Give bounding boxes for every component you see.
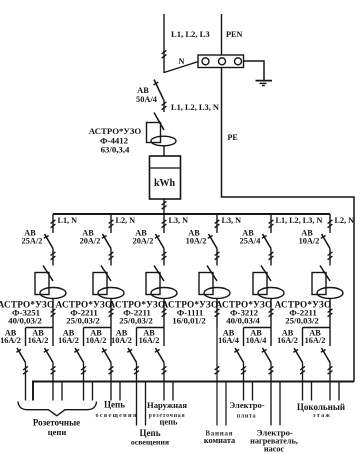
- svg-text:L2, N: L2, N: [116, 216, 136, 225]
- svg-text:L1, N: L1, N: [58, 216, 78, 225]
- svg-text:10А/2: 10А/2: [299, 237, 320, 246]
- svg-text:25/0,03/2: 25/0,03/2: [66, 316, 100, 326]
- svg-text:50А/4: 50А/4: [136, 95, 158, 104]
- svg-text:16А/2: 16А/2: [58, 336, 79, 345]
- svg-text:10А/2: 10А/2: [111, 336, 132, 345]
- svg-text:10А/4: 10А/4: [246, 336, 267, 345]
- svg-text:16А/2: 16А/2: [28, 336, 49, 345]
- svg-text:16А/2: 16А/2: [0, 336, 21, 345]
- svg-text:насос: насос: [264, 445, 285, 454]
- svg-text:kWh: kWh: [154, 178, 176, 189]
- svg-text:16А/4: 16А/4: [218, 336, 239, 345]
- svg-text:16А/2: 16А/2: [139, 336, 160, 345]
- svg-text:63/0,3,4: 63/0,3,4: [101, 145, 130, 155]
- svg-text:L3, N: L3, N: [169, 216, 189, 225]
- svg-text:20А/2: 20А/2: [133, 237, 154, 246]
- svg-text:L1, L2, L3: L1, L2, L3: [171, 29, 210, 39]
- svg-text:комната: комната: [204, 436, 236, 445]
- svg-text:40/0,03/4: 40/0,03/4: [226, 316, 260, 326]
- svg-text:освещения: освещения: [95, 412, 137, 419]
- svg-text:10А/2: 10А/2: [186, 237, 207, 246]
- svg-text:плита: плита: [237, 413, 257, 420]
- svg-text:20А/2: 20А/2: [80, 237, 101, 246]
- svg-text:16А/2: 16А/2: [277, 336, 298, 345]
- svg-text:PEN: PEN: [226, 30, 242, 39]
- svg-text:PE: PE: [228, 133, 238, 142]
- svg-text:Цепь: Цепь: [104, 400, 125, 410]
- svg-text:Электро-: Электро-: [229, 400, 264, 410]
- svg-text:АВ: АВ: [137, 86, 149, 95]
- svg-text:Розеточные: Розеточные: [33, 418, 80, 428]
- svg-text:Цокольный: Цокольный: [297, 402, 345, 412]
- svg-text:25/0,03/2: 25/0,03/2: [285, 316, 319, 326]
- svg-text:цепь: цепь: [159, 417, 178, 427]
- svg-text:N: N: [179, 57, 185, 66]
- svg-text:L1, L2, L3, N: L1, L2, L3, N: [171, 103, 219, 112]
- svg-text:40/0,03/2: 40/0,03/2: [8, 316, 42, 326]
- svg-text:L3, N: L3, N: [222, 216, 242, 225]
- svg-text:L2, N: L2, N: [335, 216, 355, 225]
- svg-text:L1, L2, L3, N: L1, L2, L3, N: [276, 216, 323, 225]
- svg-text:АСТРО*УЗО: АСТРО*УЗО: [89, 126, 142, 136]
- svg-text:16/0,01/2: 16/0,01/2: [172, 316, 206, 326]
- svg-text:освещения: освещения: [131, 438, 170, 447]
- svg-text:25А/2: 25А/2: [22, 237, 43, 246]
- svg-text:цепи: цепи: [48, 427, 67, 437]
- svg-text:25/0,03/2: 25/0,03/2: [119, 316, 153, 326]
- svg-text:10А/2: 10А/2: [86, 336, 107, 345]
- svg-text:Цепь: Цепь: [140, 428, 161, 438]
- svg-text:этаж: этаж: [313, 412, 331, 419]
- svg-text:16А/2: 16А/2: [305, 336, 326, 345]
- svg-text:25А/4: 25А/4: [240, 237, 261, 246]
- svg-text:Наружная: Наружная: [147, 400, 187, 410]
